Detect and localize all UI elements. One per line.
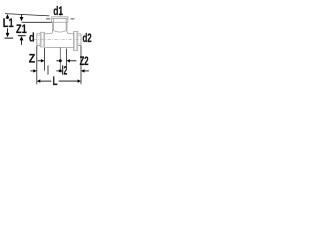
- extension line Z2 boundary: [65, 49, 67, 68]
- svg-text:d: d: [29, 30, 35, 44]
- left collar (press bead): [40, 32, 44, 47]
- dimension L line: [37, 79, 41, 82]
- dimension l2 right arrow: [81, 69, 85, 72]
- svg-text:l2: l2: [62, 64, 68, 78]
- svg-text:d1: d1: [53, 4, 63, 18]
- inner double lines (light): [37, 32, 81, 49]
- L1 axis mark: [5, 37, 14, 39]
- extension line right end plane: [80, 46, 82, 85]
- svg-text:L1: L1: [3, 16, 14, 30]
- body top left + fillet: [44, 22, 52, 33]
- dimension L line right segment: [59, 80, 78, 82]
- horizontal axis centerline: [34, 39, 84, 41]
- extension line left end plane: [36, 46, 38, 85]
- Z1 bottom arrow + stem: [20, 36, 24, 40]
- branch centerline tick: [59, 11, 61, 17]
- svg-text:d2: d2: [83, 31, 92, 45]
- node dot axis upper: [59, 59, 62, 62]
- shoulder extension line for Z1: [22, 21, 52, 23]
- dimension L1: [7, 18, 9, 33]
- dimension l arrow: [30, 70, 33, 72]
- svg-text:Z1: Z1: [16, 22, 27, 36]
- L1 top arrow: [6, 14, 10, 18]
- fitting outline group (light gray): [37, 17, 81, 51]
- left port socket: [37, 34, 41, 46]
- svg-text:Z2: Z2: [80, 54, 89, 68]
- d1 left stub: [46, 18, 50, 20]
- branch bead (top socket): [52, 17, 68, 32]
- node dot axis lower: [59, 69, 62, 72]
- right port socket: [78, 34, 81, 46]
- dimension Z2 arrow: [66, 59, 70, 62]
- d1 right stub: [71, 18, 75, 20]
- dimension Z arrow: [38, 60, 42, 62]
- branch axis extension below body: [59, 48, 61, 71]
- right collar: [74, 31, 78, 50]
- dimension L right arrow: [78, 79, 82, 82]
- body bottom: [44, 46, 73, 48]
- dimension Z1 hanging stem + arrow: [21, 14, 23, 17]
- top extension line (sloped): [5, 14, 50, 16]
- svg-text:Z: Z: [29, 52, 35, 66]
- extension line left shoulder: [43, 48, 45, 71]
- Z1 bottom short line: [18, 35, 26, 37]
- svg-text:l: l: [47, 64, 49, 78]
- branch right wall + fillet + body top right: [67, 22, 74, 33]
- svg-text:L: L: [53, 74, 58, 88]
- L1 bottom arrow: [6, 33, 10, 37]
